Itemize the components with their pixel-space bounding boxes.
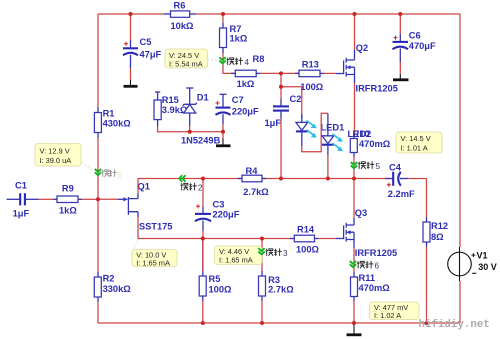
- svg-text:6: 6: [375, 262, 380, 271]
- junction dot top C6: [398, 12, 402, 16]
- svg-text:470mΩ: 470mΩ: [359, 139, 391, 149]
- wire R5 to bottom rail: [202, 301, 204, 323]
- svg-text:C1: C1: [15, 181, 27, 191]
- measurement box V 477: [370, 302, 420, 320]
- probe 2 text: [181, 183, 204, 193]
- wire R7 to R8 node: [223, 53, 235, 73]
- svg-text:100Ω: 100Ω: [296, 245, 320, 255]
- wire R12 to bottom rail: [426, 247, 428, 323]
- svg-text:R10: R10: [353, 129, 370, 139]
- wire R14 to Q3 gate: [319, 238, 337, 240]
- svg-text:IRFR1205: IRFR1205: [355, 248, 397, 258]
- leader dash box V10.0 to wire corner: [134, 241, 139, 250]
- svg-text:2.7kΩ: 2.7kΩ: [268, 284, 294, 294]
- wire left rail bottom stub: [97, 302, 99, 323]
- capacitor C1: [7, 193, 53, 205]
- resistor R1: [94, 107, 101, 138]
- junction dot C2 LED node: [279, 85, 283, 89]
- wire Q2 source down: [354, 83, 356, 134]
- resistor R3: [259, 271, 266, 301]
- wire to LED1 anode: [281, 87, 302, 119]
- wire source rail: [198, 238, 294, 240]
- svg-text:470mΩ: 470mΩ: [359, 283, 391, 293]
- capacitor C7: [216, 94, 231, 131]
- probe 5 text: [358, 161, 381, 171]
- capacitor C2: [273, 87, 289, 179]
- resistor R13: [295, 70, 324, 77]
- svg-text:I: 1.65 mA: I: 1.65 mA: [136, 258, 170, 267]
- svg-text:C5: C5: [140, 37, 152, 47]
- ground at bottom rail: [347, 323, 362, 335]
- LED D LED2: [322, 113, 334, 155]
- svg-text:2: 2: [198, 184, 203, 193]
- junction dot top Q2: [353, 12, 357, 16]
- svg-text:1μF: 1μF: [13, 209, 30, 219]
- svg-text:1N5249B: 1N5249B: [181, 135, 221, 145]
- svg-text:Q3: Q3: [355, 208, 367, 218]
- wire R8 to R13: [261, 72, 300, 74]
- capacitor C4: [385, 172, 427, 186]
- svg-text:V: 14.5 V: V: 14.5 V: [401, 134, 431, 143]
- leader dash box2 to probe4: [207, 59, 218, 61]
- junction dot top R7: [221, 12, 225, 16]
- svg-text:hifidiy.net: hifidiy.net: [419, 319, 490, 331]
- probe 5: [351, 162, 357, 168]
- wire node to Q1 gate: [98, 198, 118, 200]
- junction dot R8 R13 node: [279, 71, 283, 75]
- svg-text:C4: C4: [389, 162, 402, 172]
- junction dot rail Q2 source: [352, 177, 356, 181]
- junction dot C7 bottom: [221, 130, 225, 134]
- svg-text:1kΩ: 1kΩ: [230, 33, 248, 43]
- junction dot bottom R5: [201, 321, 205, 325]
- junction dot D1 bottom: [188, 130, 192, 134]
- junction dot rail C3: [201, 177, 205, 181]
- wire Q3 drain up: [353, 179, 355, 219]
- svg-text:C2: C2: [290, 94, 302, 104]
- svg-text:IRFR1205: IRFR1205: [356, 83, 398, 93]
- wire bottom rail: [98, 322, 460, 324]
- capacitor C6: [393, 14, 409, 74]
- wire LED1 cathode to LED2 anode: [302, 113, 328, 152]
- svg-text:3: 3: [283, 249, 288, 258]
- diode D1 zener: [183, 88, 197, 126]
- svg-text:R15: R15: [162, 95, 179, 105]
- probe 3: [258, 248, 264, 254]
- resistor R8: [231, 70, 261, 77]
- wire Q1 drain up: [137, 179, 139, 194]
- svg-text:R13: R13: [302, 60, 319, 70]
- svg-text:5: 5: [376, 162, 381, 171]
- svg-text:100Ω: 100Ω: [300, 82, 324, 92]
- svg-text:2.2mF: 2.2mF: [388, 189, 415, 199]
- wire LED2 cathode to output rail: [327, 155, 329, 179]
- svg-text:220μF: 220μF: [232, 106, 259, 116]
- junction dot bottom R12: [425, 321, 429, 325]
- wire top rail right segment: [196, 13, 460, 15]
- svg-text:Q1: Q1: [138, 182, 150, 192]
- svg-text:1μF: 1μF: [265, 118, 282, 128]
- ground under C6: [393, 74, 409, 80]
- svg-text:3.9kΩ: 3.9kΩ: [162, 105, 188, 115]
- svg-text:R11: R11: [359, 273, 376, 283]
- capacitor C3: [195, 179, 211, 239]
- junction dot source rail R5: [201, 237, 205, 241]
- svg-text:R1: R1: [103, 109, 115, 119]
- svg-text:R14: R14: [297, 224, 315, 234]
- junction dot source rail R3: [260, 237, 264, 241]
- measurement box V 24.5: [165, 49, 208, 68]
- probe 6 text: [357, 261, 380, 271]
- ground under C5: [124, 80, 138, 86]
- svg-text:I: 1.02 A: I: 1.02 A: [374, 311, 401, 320]
- svg-text:1kΩ: 1kΩ: [59, 206, 77, 216]
- junction dot rail C2: [279, 177, 283, 181]
- wire R13 to Q2 gate: [324, 72, 336, 74]
- wire right rail upper: [459, 14, 461, 247]
- junction dot rail LED2: [326, 177, 330, 181]
- svg-text:2.7kΩ: 2.7kΩ: [243, 187, 269, 197]
- resistor R12: [423, 217, 430, 247]
- ground under C7: [216, 132, 231, 146]
- plus sign C7: [215, 101, 219, 105]
- resistor R9: [53, 196, 82, 203]
- svg-text:30 V: 30 V: [478, 262, 497, 272]
- svg-text:R9: R9: [62, 184, 74, 194]
- junction dot left rail node: [96, 197, 100, 201]
- LED2 light arrows: [333, 134, 343, 151]
- svg-text:I: 39.0 uA: I: 39.0 uA: [40, 156, 72, 165]
- probe 2: [179, 175, 185, 181]
- probe 4: [219, 57, 225, 63]
- svg-text:C6: C6: [409, 31, 421, 41]
- svg-text:C7: C7: [232, 95, 244, 105]
- wire D1 bottom: [189, 126, 191, 132]
- wire R10 to rail with probe5: [353, 157, 355, 179]
- resistor R4: [238, 175, 266, 182]
- svg-text:220μF: 220μF: [213, 209, 240, 219]
- svg-text:8Ω: 8Ω: [431, 232, 444, 242]
- svg-text:LED1: LED1: [321, 122, 345, 132]
- resistor R5: [199, 239, 206, 302]
- transistor Q2: [336, 50, 355, 83]
- svg-text:100Ω: 100Ω: [209, 284, 233, 294]
- svg-text:I: 1.65 mA: I: 1.65 mA: [219, 256, 253, 265]
- plus sign C6: [393, 36, 397, 40]
- junction dot top C5: [129, 12, 133, 16]
- probe 1 faint text: [102, 169, 122, 178]
- measurement box V 12.9: [35, 144, 81, 167]
- wire output rail: [138, 178, 391, 180]
- wire R5 top red part: [202, 239, 204, 272]
- capacitor C5: [123, 14, 138, 80]
- svg-text:I: 5.54 mA: I: 5.54 mA: [169, 59, 203, 68]
- measurement box V 10.0: [132, 250, 177, 268]
- resistor R6: [164, 11, 196, 17]
- svg-text:D1: D1: [197, 92, 209, 102]
- probe 1: [95, 169, 101, 175]
- svg-text:V: 12.9 V: V: 12.9 V: [40, 147, 70, 156]
- measurement box V 4.46: [215, 246, 263, 265]
- wire R9 to left rail node: [82, 198, 98, 200]
- svg-text:Q2: Q2: [356, 43, 368, 53]
- wire Q1 source down: [138, 217, 198, 239]
- wire top rail left segment: [98, 13, 164, 15]
- wire right rail lower: [459, 281, 461, 323]
- svg-text:4: 4: [245, 58, 250, 67]
- wire R3 to bottom rail: [261, 301, 263, 323]
- leader dash box1 to probe1: [81, 162, 94, 171]
- svg-text:R6: R6: [174, 0, 186, 10]
- svg-text:470μF: 470μF: [409, 41, 436, 51]
- wire R15 bottom to zener rail: [158, 126, 223, 132]
- wire left rail lower: [97, 138, 99, 272]
- svg-text:I: 1.01 A: I: 1.01 A: [401, 144, 428, 153]
- resistor R10: [350, 134, 357, 157]
- transistor Q1: [118, 193, 138, 217]
- plus sign C4: [387, 183, 391, 187]
- resistor R7: [220, 14, 227, 53]
- svg-text:10kΩ: 10kΩ: [171, 21, 195, 31]
- svg-text:R5: R5: [209, 274, 221, 284]
- wire C4 to R12: [426, 179, 428, 218]
- svg-text:R12: R12: [431, 221, 448, 231]
- svg-text:V1: V1: [477, 251, 488, 261]
- svg-text:47μF: 47μF: [140, 50, 162, 60]
- svg-text:C3: C3: [213, 200, 225, 210]
- resistor R15: [154, 92, 161, 126]
- wire Q2 drain to top rail: [354, 14, 356, 50]
- wire node A down: [280, 73, 282, 86]
- LED D LED1: [296, 114, 308, 146]
- svg-text:1kΩ: 1kΩ: [237, 79, 255, 89]
- svg-text:330kΩ: 330kΩ: [103, 284, 132, 294]
- svg-text:SST175: SST175: [139, 222, 173, 232]
- wire R11 to bottom rail: [353, 301, 355, 323]
- junction dot bottom R3: [260, 321, 264, 325]
- resistor R2: [94, 272, 101, 302]
- svg-text:R2: R2: [103, 274, 115, 284]
- plus sign C5: [124, 42, 128, 46]
- probe 6: [350, 261, 356, 267]
- svg-text:R4: R4: [246, 166, 259, 176]
- junction dot bottom ground: [352, 321, 356, 325]
- resistor R14: [290, 235, 319, 242]
- svg-text:R8: R8: [253, 54, 265, 64]
- measurement box V 14.5: [396, 132, 442, 153]
- wire R3 top: [261, 239, 263, 272]
- plus sign C3: [196, 204, 200, 208]
- wire Q3 source down: [353, 248, 355, 272]
- source V1: [448, 247, 477, 281]
- svg-text:430kΩ: 430kΩ: [103, 119, 132, 129]
- LED1 light arrows: [307, 121, 317, 138]
- probe 3 text: [266, 248, 289, 258]
- resistor R11: [351, 272, 358, 301]
- wire left rail: [97, 14, 99, 107]
- probe 4 text: [227, 57, 250, 67]
- transistor Q3: [336, 218, 354, 248]
